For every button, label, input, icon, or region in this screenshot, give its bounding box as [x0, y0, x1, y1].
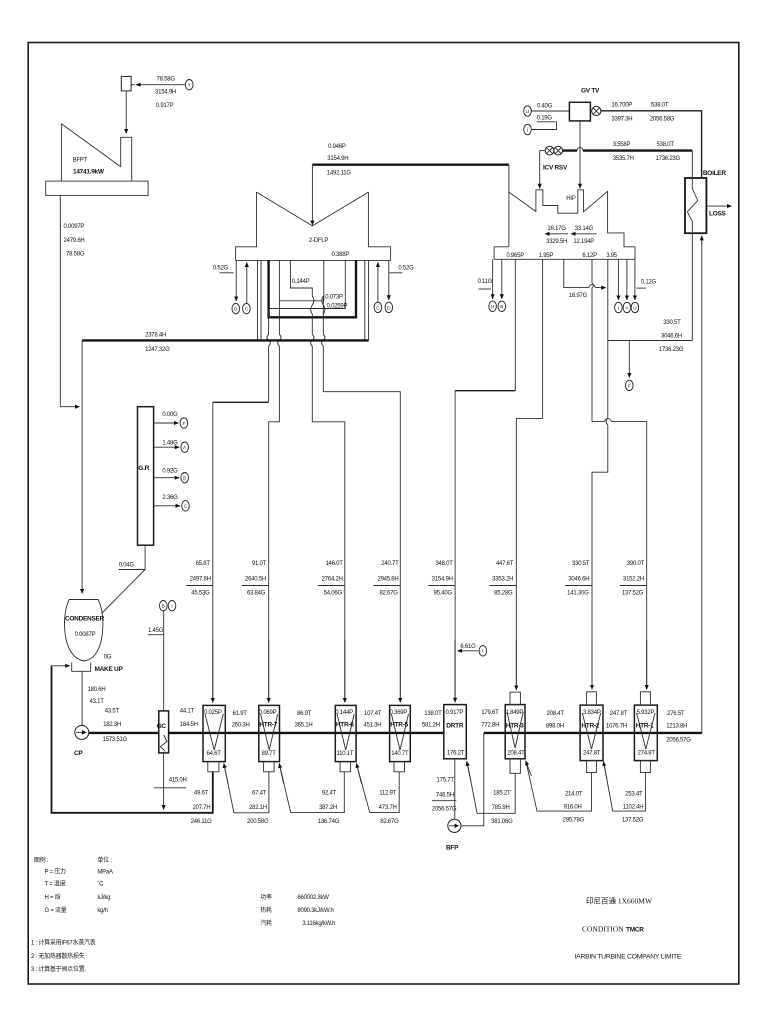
- svg-text:348.0T: 348.0T: [435, 561, 453, 567]
- svg-text:1102.4H: 1102.4H: [623, 805, 644, 811]
- svg-text:1213.8H: 1213.8H: [666, 723, 687, 729]
- svg-text:0.92G: 0.92G: [162, 468, 178, 474]
- svg-text:246.11G: 246.11G: [191, 819, 212, 825]
- LP inlet wire: [311, 165, 313, 225]
- svg-text:kJ/kg: kJ/kg: [97, 895, 110, 901]
- svg-text:B: B: [162, 604, 165, 609]
- svg-text:247.8T: 247.8T: [583, 750, 601, 756]
- svg-text:208.4T: 208.4T: [547, 711, 565, 717]
- svg-text:0.0087P: 0.0087P: [75, 632, 96, 638]
- svg-text:3 : 计算基于阀点位置.: 3 : 计算基于阀点位置.: [31, 965, 86, 973]
- svg-text:3154.9H: 3154.9H: [155, 90, 176, 96]
- feedwater wire into boiler: [701, 242, 703, 733]
- svg-text:2764.2H: 2764.2H: [322, 577, 343, 583]
- svg-text:415.0H: 415.0H: [169, 777, 187, 783]
- svg-text:B: B: [500, 304, 503, 309]
- svg-text:538.0T: 538.0T: [651, 103, 669, 109]
- svg-text:HIP: HIP: [566, 196, 576, 202]
- feedwater wire BFP riser to boiler: [484, 732, 702, 734]
- svg-text:BOILER: BOILER: [703, 170, 726, 177]
- svg-text:175.7T: 175.7T: [437, 777, 455, 783]
- svg-text:1.95P: 1.95P: [539, 253, 554, 259]
- svg-text:HTR-3: HTR-3: [506, 722, 524, 729]
- wire LP exhaust to condenser: [81, 340, 83, 593]
- svg-text:F: F: [182, 421, 185, 426]
- svg-text:印尼百通 1X660MW: 印尼百通 1X660MW: [586, 896, 653, 906]
- svg-text:ICV RSV: ICV RSV: [543, 165, 568, 172]
- svg-text:3535.7H: 3535.7H: [613, 156, 634, 162]
- svg-text:3046.6H: 3046.6H: [661, 333, 682, 339]
- svg-text:6.61G: 6.61G: [460, 644, 476, 650]
- LOSS wire: [706, 205, 731, 207]
- svg-text:1247.32G: 1247.32G: [145, 347, 170, 353]
- svg-text:3.558P: 3.558P: [613, 142, 631, 148]
- svg-text:0.388P: 0.388P: [332, 252, 350, 258]
- valve TV: [592, 106, 601, 115]
- svg-text:2497.8H: 2497.8H: [190, 577, 211, 583]
- svg-text:140.7T: 140.7T: [391, 751, 409, 757]
- heater HTR-7: [259, 705, 280, 761]
- svg-text:0.40G: 0.40G: [537, 103, 553, 109]
- svg-text:16.97G: 16.97G: [569, 293, 588, 299]
- heater HTR-5: [390, 705, 411, 761]
- HIP gland circles right: [617, 259, 619, 300]
- svg-text:2.36G: 2.36G: [162, 495, 178, 501]
- svg-text:67.4T: 67.4T: [252, 791, 267, 797]
- svg-text:0.144P: 0.144P: [335, 710, 353, 716]
- svg-text:CONDENSER: CONDENSER: [65, 615, 105, 622]
- wire GC vent to nodes: [163, 611, 165, 711]
- svg-text:2945.8H: 2945.8H: [377, 577, 398, 583]
- svg-text:1 : 计算采用IF67水蒸汽表: 1 : 计算采用IF67水蒸汽表: [31, 939, 96, 947]
- svg-text:214.0T: 214.0T: [565, 791, 583, 797]
- svg-text:785.9H: 785.9H: [492, 805, 510, 811]
- svg-text:0.965P: 0.965P: [506, 253, 524, 259]
- svg-text:295.78G: 295.78G: [563, 818, 585, 824]
- svg-text:82.67G: 82.67G: [379, 591, 398, 597]
- svg-text:176.2T: 176.2T: [447, 750, 465, 756]
- svg-text:IARBIN TURBINE COMPANY LIMITE: IARBIN TURBINE COMPANY LIMITE: [575, 953, 682, 960]
- svg-text:0.144P: 0.144P: [292, 279, 310, 285]
- svg-text:1.45G: 1.45G: [148, 628, 164, 634]
- drain collect wire to condenser: [52, 666, 213, 813]
- wire G.R drain to condenser: [102, 545, 146, 613]
- BFPT exhaust wire: [59, 195, 61, 406]
- LP extraction 0.073P: [269, 260, 324, 699]
- svg-text:3046.6H: 3046.6H: [568, 577, 589, 583]
- heater HTR-2: [580, 705, 603, 761]
- svg-text:G = 流量: G = 流量: [45, 906, 67, 914]
- svg-text:89.7T: 89.7T: [262, 751, 277, 757]
- drain HTR-6 to HTR-7: [280, 767, 344, 813]
- svg-text:91.0T: 91.0T: [252, 561, 267, 567]
- wire 6.61G: [458, 650, 479, 652]
- drain HTR-3 to DRTR: [468, 764, 516, 813]
- BFPT base: [46, 181, 148, 195]
- svg-text:3154.9H: 3154.9H: [432, 577, 453, 583]
- svg-text:H = 焓: H = 焓: [45, 893, 61, 901]
- svg-text:3353.2H: 3353.2H: [492, 577, 513, 583]
- deaerator DRTR: [444, 705, 467, 759]
- svg-text:0.52G: 0.52G: [398, 266, 414, 272]
- svg-text:390.0T: 390.0T: [627, 561, 645, 567]
- svg-text:GV TV: GV TV: [581, 88, 600, 95]
- svg-text:85.28G: 85.28G: [494, 591, 513, 597]
- svg-text:538.0T: 538.0T: [657, 142, 675, 148]
- svg-text:2 : 无加热器散热损失: 2 : 无加热器散热损失: [31, 952, 85, 960]
- svg-text:2-DFLP: 2-DFLP: [309, 238, 328, 244]
- svg-text:汽耗: 汽耗: [260, 919, 272, 927]
- svg-text:146.0T: 146.0T: [325, 561, 343, 567]
- svg-text:CONDITION: CONDITION: [582, 925, 624, 934]
- svg-text:3329.5H: 3329.5H: [546, 239, 567, 245]
- svg-text:I: I: [482, 649, 483, 654]
- svg-text:110.1T: 110.1T: [337, 751, 354, 757]
- wire extraction 0.965P to DRTR: [514, 259, 516, 390]
- wire drop to node F: [628, 341, 630, 378]
- node circle U: [524, 106, 532, 116]
- svg-text:581.2H: 581.2H: [422, 723, 440, 729]
- svg-text:447.6T: 447.6T: [496, 561, 514, 567]
- svg-text:95.40G: 95.40G: [434, 591, 453, 597]
- wire makeup: [52, 665, 70, 667]
- svg-text:I: I: [171, 604, 172, 609]
- svg-text:137.52G: 137.52G: [622, 591, 644, 597]
- drain HTR-7 to HTR-8: [225, 767, 269, 813]
- svg-text:TMCR: TMCR: [626, 927, 644, 934]
- LP extraction 0.0259P: [267, 260, 345, 402]
- svg-text:107.4T: 107.4T: [364, 711, 382, 717]
- turbine BFPT body: [61, 124, 131, 181]
- svg-text:0.04G: 0.04G: [119, 563, 135, 569]
- svg-text:78.58G: 78.58G: [157, 77, 176, 83]
- svg-text:86.9T: 86.9T: [297, 711, 312, 717]
- svg-text:274.8T: 274.8T: [638, 750, 656, 756]
- svg-text:3.95: 3.95: [606, 253, 618, 259]
- svg-text:I: I: [618, 305, 619, 310]
- svg-text:5.932P: 5.932P: [637, 710, 655, 716]
- svg-text:3.834P: 3.834P: [583, 710, 601, 716]
- svg-text:1492.11G: 1492.11G: [327, 171, 352, 177]
- drain HTR-2 to HTR-3: [526, 763, 591, 812]
- svg-text:MPaA: MPaA: [97, 869, 113, 875]
- BFPT supply box: [121, 76, 131, 91]
- condensate wire CP to GC: [89, 732, 159, 734]
- svg-text:33.14G: 33.14G: [575, 226, 594, 232]
- svg-text:276.5T: 276.5T: [667, 711, 685, 717]
- svg-text:0G: 0G: [104, 654, 112, 660]
- svg-text:0.11G: 0.11G: [478, 279, 493, 285]
- svg-text:179.6T: 179.6T: [481, 710, 499, 716]
- svg-text:14741.9kW: 14741.9kW: [73, 169, 105, 176]
- svg-text:HTR-1: HTR-1: [636, 722, 654, 729]
- svg-text:381.06G: 381.06G: [491, 819, 513, 825]
- wire supply to BFPT box: [136, 84, 185, 86]
- wire GC drain: [163, 753, 165, 810]
- svg-text:6.12P: 6.12P: [582, 253, 597, 259]
- svg-text:8090.3kJ/kW.h: 8090.3kJ/kW.h: [297, 908, 333, 914]
- svg-text:78.58G: 78.58G: [66, 251, 85, 257]
- heater HTR-8: [203, 705, 225, 761]
- wire GV to HIP inlet2: [579, 121, 581, 188]
- svg-text:功率: 功率: [260, 893, 272, 901]
- svg-text:0.00G: 0.00G: [162, 412, 178, 418]
- svg-text:GC: GC: [157, 723, 167, 730]
- svg-text:1.48G: 1.48G: [162, 440, 178, 446]
- turbine 2-DFLP body: [236, 192, 391, 260]
- svg-text:CP: CP: [74, 750, 83, 757]
- svg-text:772.8H: 772.8H: [481, 723, 499, 729]
- svg-text:136.74G: 136.74G: [318, 819, 340, 825]
- crossover pipe: [312, 163, 509, 165]
- svg-text:0.917P: 0.917P: [446, 710, 464, 716]
- svg-text:451.3H: 451.3H: [363, 723, 381, 729]
- svg-text:Y: Y: [188, 83, 191, 88]
- LP extraction 0.369P bold header: [269, 260, 356, 317]
- svg-text:2479.6H: 2479.6H: [64, 238, 85, 244]
- wire BFP discharge riser: [461, 733, 484, 826]
- svg-text:82.67G: 82.67G: [380, 819, 399, 825]
- svg-text:112.9T: 112.9T: [379, 791, 396, 797]
- valve ICV: [545, 146, 554, 155]
- condensate wire GC to DRTR: [169, 732, 444, 734]
- svg-text:0.025P: 0.025P: [204, 710, 222, 716]
- svg-text:I: I: [527, 127, 528, 132]
- svg-text:BFPT: BFPT: [73, 157, 88, 163]
- svg-text:HTR-6: HTR-6: [336, 721, 354, 728]
- svg-text:0.917P: 0.917P: [156, 103, 174, 109]
- heater HTR-1: [634, 705, 657, 761]
- 16.97G wire: [564, 259, 599, 287]
- svg-text:3152.2H: 3152.2H: [623, 577, 644, 583]
- LP extraction 0.369P drop: [322, 296, 401, 700]
- svg-text:HTR-7: HTR-7: [259, 721, 277, 728]
- hot reheat wire: [563, 149, 693, 151]
- svg-text:˚C: ˚C: [97, 880, 104, 887]
- svg-text:3.116kg/kW.h: 3.116kg/kW.h: [302, 921, 335, 927]
- svg-text:473.7H: 473.7H: [379, 805, 397, 811]
- LP extraction 0.144P: [290, 260, 344, 699]
- svg-text:P = 压力: P = 压力: [45, 867, 67, 875]
- svg-text:0.19G: 0.19G: [537, 116, 553, 122]
- wire hotwell to CP: [81, 671, 83, 725]
- svg-text:2378.4H: 2378.4H: [145, 333, 166, 339]
- svg-text:MAKE UP: MAKE UP: [95, 666, 124, 673]
- svg-text:746.5H: 746.5H: [436, 792, 454, 798]
- svg-text:LOSS: LOSS: [709, 210, 727, 217]
- svg-text:1736.23G: 1736.23G: [656, 156, 681, 162]
- wire ICV to HIP inlet1: [539, 151, 541, 189]
- svg-text:U: U: [526, 109, 529, 114]
- svg-text:137.52G: 137.52G: [622, 818, 644, 824]
- svg-text:0.52G: 0.52G: [213, 266, 229, 272]
- svg-text:HTR-5: HTR-5: [390, 721, 408, 728]
- svg-text:916.0H: 916.0H: [564, 805, 582, 811]
- svg-text:64.6T: 64.6T: [207, 751, 222, 757]
- wire box to BFPT inlet: [125, 91, 127, 133]
- svg-text:BFP: BFP: [446, 845, 459, 852]
- svg-text:热耗: 热耗: [260, 906, 272, 914]
- circle Y: [185, 80, 193, 90]
- svg-text:3154.9H: 3154.9H: [327, 156, 348, 162]
- valve RSV: [554, 146, 563, 155]
- drain HTR-5 to HTR-6: [357, 767, 399, 813]
- svg-text:2056.58G: 2056.58G: [650, 116, 675, 122]
- svg-text:260.3H: 260.3H: [232, 723, 250, 729]
- svg-text:207.7H: 207.7H: [193, 805, 211, 811]
- svg-text:184.5H: 184.5H: [180, 722, 198, 728]
- svg-text:1.849P: 1.849P: [506, 710, 524, 716]
- svg-text:660002.3kW: 660002.3kW: [297, 895, 329, 901]
- svg-text:F: F: [628, 383, 631, 388]
- node circle I: [524, 124, 532, 134]
- svg-text:B: B: [183, 476, 186, 481]
- svg-text:16.700P: 16.700P: [611, 103, 632, 109]
- svg-text:DRTR: DRTR: [446, 722, 464, 729]
- LP gland wires + node circles: [235, 260, 237, 301]
- svg-text:图例 :: 图例 :: [34, 856, 49, 864]
- svg-text:182.3H: 182.3H: [103, 722, 121, 728]
- svg-text:HTR-2: HTR-2: [581, 722, 599, 729]
- svg-text:185.2T: 185.2T: [493, 791, 511, 797]
- svg-text:0.073P: 0.073P: [325, 295, 343, 301]
- svg-text:49.6T: 49.6T: [194, 791, 209, 797]
- svg-text:365.1H: 365.1H: [295, 723, 313, 729]
- svg-text:330.5T: 330.5T: [572, 561, 590, 567]
- svg-text:0.12G: 0.12G: [641, 279, 657, 285]
- svg-text:208.4T: 208.4T: [507, 750, 525, 756]
- svg-text:63.84G: 63.84G: [247, 591, 266, 597]
- svg-text:U: U: [633, 305, 636, 310]
- heater HTR-6: [335, 705, 356, 761]
- pump BFP: [448, 819, 461, 832]
- wire extraction 1.95P to HTR-3: [516, 259, 542, 689]
- svg-text:0.0259P: 0.0259P: [327, 304, 348, 310]
- pump CP: [75, 725, 89, 739]
- wire DRTR to BFP: [454, 759, 456, 819]
- svg-text:0.369P: 0.369P: [390, 710, 408, 716]
- svg-text:387.2H: 387.2H: [319, 805, 337, 811]
- svg-text:44.1T: 44.1T: [180, 709, 195, 715]
- HIP gland circles left: [492, 259, 494, 299]
- svg-text:0.946P: 0.946P: [328, 144, 346, 150]
- svg-text:2640.5H: 2640.5H: [245, 577, 266, 583]
- svg-text:282.1H: 282.1H: [249, 805, 267, 811]
- svg-text:2056.57G: 2056.57G: [432, 806, 457, 812]
- svg-text:65.8T: 65.8T: [196, 561, 211, 567]
- svg-text:180.6H: 180.6H: [88, 687, 106, 693]
- svg-text:253.4T: 253.4T: [625, 791, 643, 797]
- svg-text:单位 :: 单位 :: [97, 856, 112, 864]
- hotwell box: [72, 663, 91, 672]
- svg-text:1573.51G: 1573.51G: [103, 737, 128, 743]
- svg-text:U: U: [491, 304, 494, 309]
- main steam wire: [601, 111, 702, 178]
- drain HTR-1 to HTR-2: [604, 764, 645, 811]
- svg-text:247.8T: 247.8T: [610, 711, 628, 717]
- svg-text:2056.57G: 2056.57G: [666, 738, 691, 744]
- svg-text:0.069P: 0.069P: [259, 710, 277, 716]
- valve GV box: [569, 102, 590, 121]
- svg-text:61.9T: 61.9T: [233, 711, 248, 717]
- svg-text:54.06G: 54.06G: [324, 591, 343, 597]
- svg-text:138.0T: 138.0T: [424, 711, 442, 717]
- wire HP exhaust / cold reheat: [608, 259, 693, 340]
- svg-text:16.17G: 16.17G: [547, 226, 566, 232]
- reheater zigzag inside boiler: [687, 151, 697, 341]
- svg-text:240.7T: 240.7T: [381, 561, 399, 567]
- svg-text:330.5T: 330.5T: [663, 320, 681, 326]
- svg-text:12.194P: 12.194P: [573, 239, 594, 245]
- wire cold reheat tap to HTR-2: [592, 341, 608, 689]
- svg-text:200.58G: 200.58G: [247, 819, 269, 825]
- svg-text:G.R: G.R: [138, 465, 149, 472]
- svg-text:43.1T: 43.1T: [90, 699, 105, 705]
- svg-text:898.0H: 898.0H: [546, 723, 564, 729]
- svg-text:43.5T: 43.5T: [105, 709, 120, 715]
- svg-text:T = 温度: T = 温度: [45, 879, 66, 887]
- LP exhaust downcomers: [258, 260, 369, 340]
- svg-text:141.30G: 141.30G: [567, 591, 589, 597]
- svg-text:0.0097P: 0.0097P: [64, 224, 85, 230]
- wire extraction 6.12P to HTR-1: [592, 259, 647, 688]
- heater HTR-3: [505, 705, 525, 759]
- svg-text:kg/h: kg/h: [97, 908, 107, 914]
- svg-text:45.53G: 45.53G: [191, 591, 210, 597]
- svg-text:1076.7H: 1076.7H: [606, 723, 627, 729]
- svg-text:92.4T: 92.4T: [322, 791, 337, 797]
- svg-text:3397.3H: 3397.3H: [611, 116, 632, 122]
- svg-text:1736.23G: 1736.23G: [659, 347, 684, 353]
